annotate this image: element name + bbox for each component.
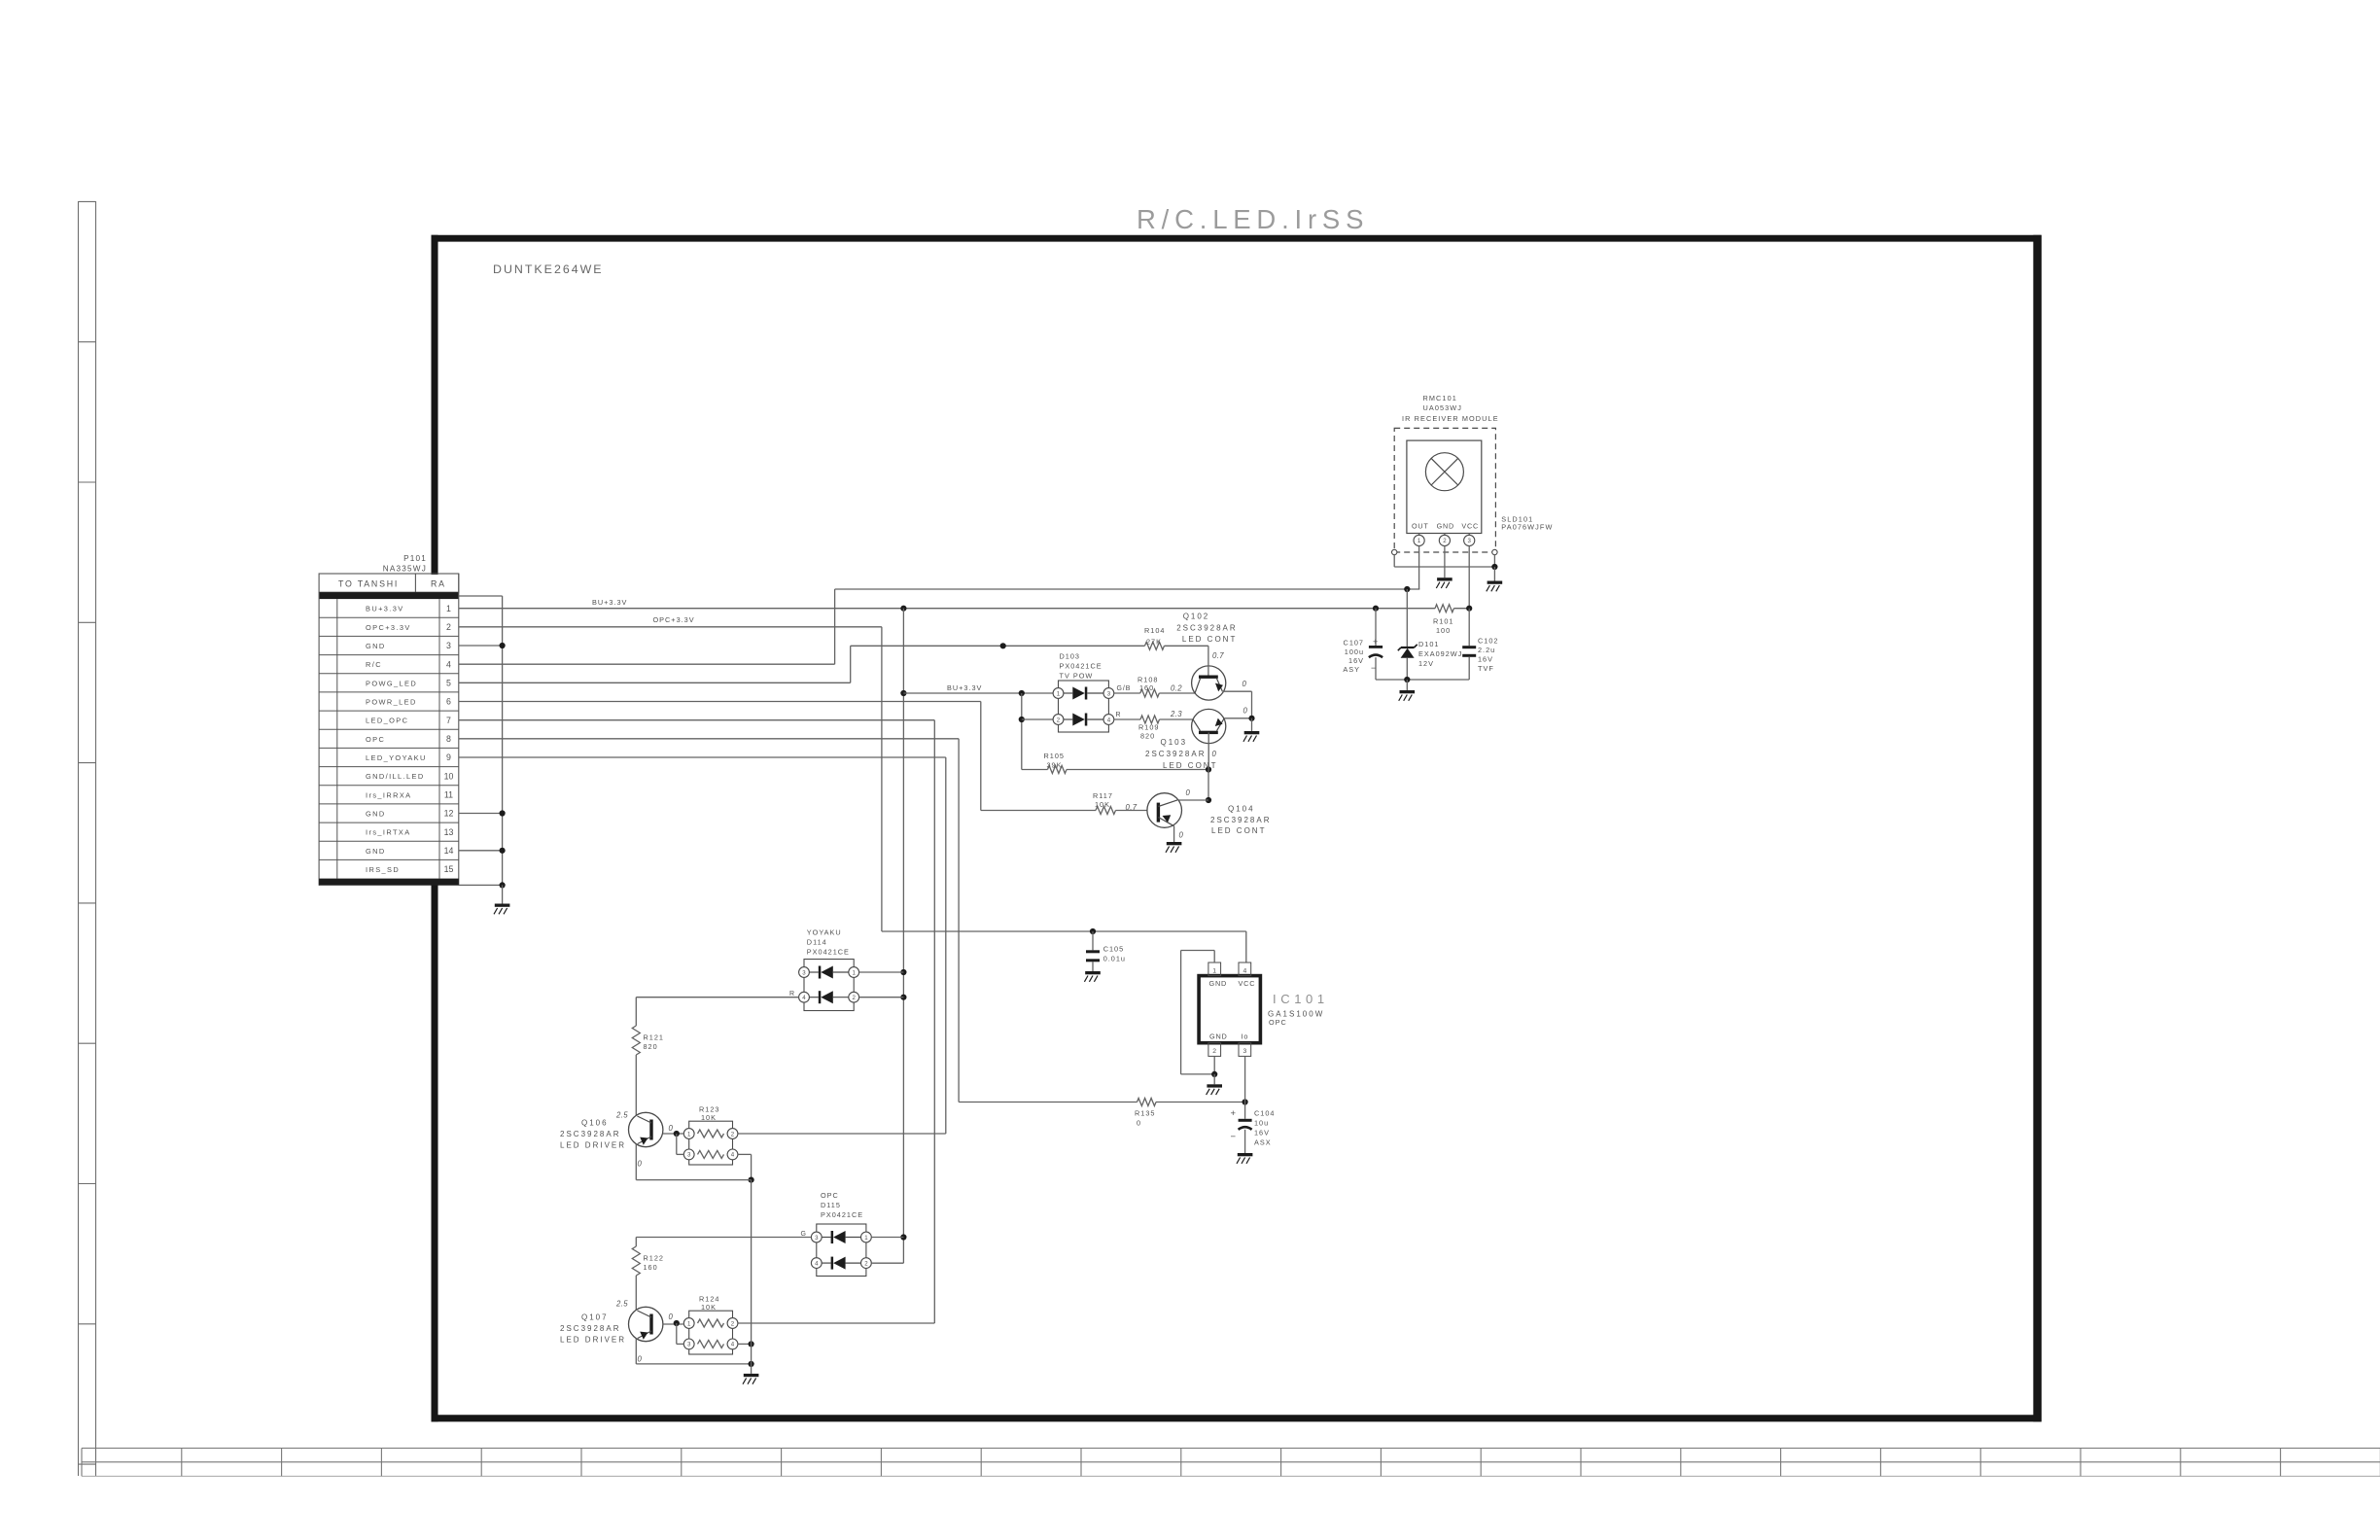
svg-text:2SC3928AR: 2SC3928AR	[1176, 624, 1237, 633]
svg-text:+: +	[1230, 1108, 1236, 1119]
svg-text:3: 3	[687, 1342, 691, 1348]
svg-text:2: 2	[853, 995, 857, 1001]
svg-text:0: 0	[1243, 707, 1248, 716]
svg-text:1: 1	[687, 1320, 691, 1327]
svg-text:1: 1	[853, 969, 857, 976]
svg-text:BU+3.3V: BU+3.3V	[947, 683, 982, 692]
svg-text:15: 15	[444, 864, 454, 874]
svg-text:160: 160	[644, 1263, 658, 1272]
svg-text:G: G	[801, 1231, 807, 1238]
svg-text:P101: P101	[403, 554, 427, 563]
svg-text:2: 2	[1212, 1048, 1216, 1055]
svg-text:OPC+3.3V: OPC+3.3V	[366, 623, 411, 632]
svg-text:Q106: Q106	[581, 1119, 609, 1128]
svg-text:2: 2	[864, 1260, 868, 1267]
svg-text:0: 0	[1212, 750, 1217, 758]
svg-text:2SC3928AR: 2SC3928AR	[1210, 816, 1271, 824]
svg-text:4: 4	[446, 659, 451, 669]
svg-text:BU+3.3V: BU+3.3V	[366, 605, 404, 613]
svg-text:R: R	[1116, 712, 1122, 718]
svg-text:YOYAKU: YOYAKU	[807, 928, 842, 937]
svg-text:GND: GND	[1209, 979, 1228, 988]
svg-text:OPC+3.3V: OPC+3.3V	[653, 615, 695, 624]
svg-text:16V: 16V	[1254, 1129, 1270, 1137]
svg-text:5: 5	[446, 679, 451, 688]
svg-text:BU+3.3V: BU+3.3V	[592, 598, 627, 607]
svg-text:Q104: Q104	[1228, 804, 1255, 813]
svg-text:3: 3	[687, 1152, 691, 1159]
svg-text:C105: C105	[1103, 945, 1124, 954]
svg-text:POWR_LED: POWR_LED	[366, 698, 417, 707]
svg-text:16V: 16V	[1348, 656, 1364, 665]
svg-text:100u: 100u	[1345, 647, 1364, 656]
svg-text:C104: C104	[1254, 1109, 1275, 1118]
svg-text:GND: GND	[366, 847, 386, 856]
svg-text:UA053WJ: UA053WJ	[1423, 403, 1463, 412]
svg-text:R105: R105	[1044, 752, 1065, 760]
svg-text:TV POW: TV POW	[1060, 671, 1094, 680]
svg-text:R104: R104	[1144, 626, 1165, 635]
svg-text:2SC3928AR: 2SC3928AR	[1145, 750, 1206, 758]
svg-text:2.3: 2.3	[1170, 710, 1182, 718]
svg-text:0.01u: 0.01u	[1103, 955, 1126, 963]
svg-text:Q103: Q103	[1161, 738, 1188, 747]
svg-text:2.5: 2.5	[615, 1111, 628, 1120]
svg-text:Q107: Q107	[581, 1313, 609, 1322]
svg-text:12: 12	[444, 809, 454, 819]
svg-text:GND: GND	[366, 810, 386, 819]
svg-text:VCC: VCC	[1461, 522, 1479, 531]
svg-text:Irs_IRRXA: Irs_IRRXA	[366, 790, 412, 799]
svg-text:IC101: IC101	[1273, 992, 1329, 1006]
svg-text:D101: D101	[1418, 640, 1439, 648]
svg-text:−: −	[1230, 1132, 1236, 1142]
svg-text:10K: 10K	[1095, 800, 1110, 809]
svg-text:4: 4	[1107, 717, 1111, 723]
svg-text:D114: D114	[807, 938, 827, 947]
svg-text:LED CONT: LED CONT	[1163, 761, 1217, 770]
svg-text:EXA092WJ: EXA092WJ	[1418, 649, 1462, 658]
svg-text:1: 1	[446, 604, 451, 613]
svg-text:IRS_SD: IRS_SD	[366, 865, 400, 874]
svg-text:TVF: TVF	[1478, 664, 1494, 673]
svg-text:G/B: G/B	[1117, 685, 1132, 692]
svg-text:PX0421CE: PX0421CE	[821, 1210, 863, 1219]
svg-text:13: 13	[444, 827, 454, 837]
svg-text:VCC: VCC	[1239, 979, 1256, 988]
svg-text:7: 7	[446, 716, 451, 725]
svg-text:8: 8	[446, 734, 451, 744]
svg-text:IR RECEIVER MODULE: IR RECEIVER MODULE	[1402, 414, 1499, 423]
svg-text:Io: Io	[1242, 1032, 1249, 1041]
svg-text:1: 1	[1212, 968, 1216, 975]
svg-text:C107: C107	[1344, 639, 1364, 647]
svg-text:R/C.LED.IrSS: R/C.LED.IrSS	[1137, 204, 1369, 234]
svg-text:Q102: Q102	[1183, 612, 1210, 621]
svg-text:2.2u: 2.2u	[1478, 646, 1495, 654]
svg-text:OUT: OUT	[1412, 522, 1429, 531]
svg-text:0.2: 0.2	[1171, 684, 1182, 693]
svg-text:R/C: R/C	[366, 660, 382, 669]
svg-text:OPC: OPC	[821, 1191, 839, 1200]
svg-text:PX0421CE: PX0421CE	[1060, 662, 1102, 671]
svg-text:R121: R121	[644, 1033, 664, 1042]
svg-text:820: 820	[644, 1042, 658, 1051]
svg-text:3: 3	[446, 641, 451, 650]
svg-text:2: 2	[446, 622, 451, 632]
svg-text:1: 1	[687, 1131, 691, 1137]
svg-text:GND: GND	[1209, 1032, 1228, 1041]
svg-text:TO TANSHI: TO TANSHI	[338, 579, 399, 589]
svg-text:0: 0	[669, 1312, 674, 1321]
svg-text:LED DRIVER: LED DRIVER	[560, 1335, 626, 1344]
svg-text:0: 0	[1137, 1119, 1141, 1128]
svg-text:R109: R109	[1138, 723, 1159, 732]
svg-text:2SC3928AR: 2SC3928AR	[560, 1324, 620, 1333]
svg-text:12V: 12V	[1418, 659, 1434, 668]
svg-text:RA: RA	[431, 579, 446, 589]
svg-text:0: 0	[638, 1355, 643, 1364]
svg-text:27K: 27K	[1146, 637, 1162, 646]
svg-text:D115: D115	[821, 1201, 841, 1209]
svg-text:3: 3	[1107, 690, 1111, 697]
svg-text:OPC: OPC	[366, 735, 385, 744]
svg-text:PX0421CE: PX0421CE	[807, 947, 850, 956]
svg-text:11: 11	[444, 790, 453, 800]
svg-text:3: 3	[1243, 1048, 1247, 1055]
svg-text:NA335WJ: NA335WJ	[383, 565, 427, 574]
svg-text:R117: R117	[1093, 791, 1113, 800]
svg-text:3: 3	[1468, 538, 1472, 544]
svg-text:GND: GND	[1437, 522, 1454, 531]
svg-text:OPC: OPC	[1269, 1018, 1287, 1027]
svg-text:LED_YOYAKU: LED_YOYAKU	[366, 753, 427, 762]
svg-text:R122: R122	[644, 1254, 664, 1263]
svg-text:C102: C102	[1478, 637, 1498, 646]
svg-text:16V: 16V	[1478, 655, 1493, 664]
svg-text:DUNTKE264WE: DUNTKE264WE	[493, 262, 604, 276]
svg-text:100: 100	[1436, 626, 1451, 635]
svg-text:2: 2	[1443, 538, 1447, 544]
svg-text:LED CONT: LED CONT	[1211, 826, 1266, 835]
svg-text:2SC3928AR: 2SC3928AR	[560, 1130, 620, 1138]
svg-text:0: 0	[1186, 788, 1191, 797]
svg-text:D103: D103	[1060, 652, 1080, 661]
svg-text:6: 6	[446, 697, 451, 707]
svg-text:LED DRIVER: LED DRIVER	[560, 1140, 626, 1149]
svg-text:GND: GND	[366, 642, 386, 650]
svg-text:4: 4	[1243, 968, 1247, 975]
svg-text:820: 820	[1140, 732, 1155, 741]
svg-text:R135: R135	[1135, 1109, 1155, 1118]
svg-text:POWG_LED: POWG_LED	[366, 679, 417, 687]
svg-text:0: 0	[1179, 831, 1184, 840]
svg-text:PA076WJFW: PA076WJFW	[1501, 522, 1553, 531]
svg-text:0.7: 0.7	[1126, 803, 1137, 812]
svg-text:0: 0	[669, 1124, 674, 1133]
svg-text:9: 9	[446, 752, 451, 762]
svg-text:ASX: ASX	[1254, 1137, 1272, 1146]
svg-text:R: R	[789, 991, 795, 997]
svg-text:RMC101: RMC101	[1423, 394, 1457, 402]
svg-text:160: 160	[1139, 683, 1154, 692]
svg-text:Irs_IRTXA: Irs_IRTXA	[366, 828, 411, 837]
svg-text:R101: R101	[1433, 617, 1453, 626]
svg-text:+: +	[1373, 637, 1378, 647]
svg-text:39K: 39K	[1047, 761, 1063, 770]
svg-text:0: 0	[638, 1160, 643, 1169]
svg-text:GND/ILL.LED: GND/ILL.LED	[366, 772, 425, 781]
svg-text:10u: 10u	[1254, 1119, 1269, 1128]
svg-text:0.7: 0.7	[1212, 651, 1224, 660]
svg-text:10: 10	[444, 771, 454, 781]
svg-text:ASY: ASY	[1343, 665, 1360, 674]
svg-text:LED CONT: LED CONT	[1182, 635, 1237, 644]
svg-text:14: 14	[444, 846, 454, 856]
svg-text:2.5: 2.5	[615, 1300, 628, 1309]
svg-text:−: −	[1371, 663, 1376, 673]
svg-text:0: 0	[1242, 680, 1247, 688]
svg-text:1: 1	[864, 1235, 868, 1242]
svg-text:LED_OPC: LED_OPC	[366, 717, 408, 725]
